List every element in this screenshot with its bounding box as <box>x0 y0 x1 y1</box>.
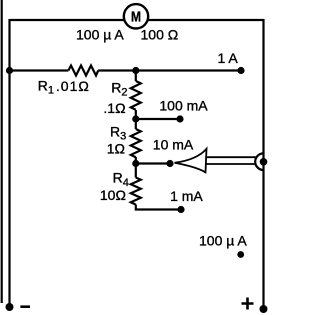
svg-text:1 mA: 1 mA <box>170 188 203 204</box>
resistor R3 <box>131 129 141 157</box>
wire: R1 to node B and on to 1 A contact <box>98 69 241 71</box>
svg-text:10 mA: 10 mA <box>153 137 194 153</box>
meter M <box>124 4 148 28</box>
svg-text:100 mA: 100 mA <box>159 98 208 114</box>
wire: top bus (meter branch) <box>10 19 264 21</box>
switch pivot dot <box>260 158 268 166</box>
switch pivot arc on right bus <box>255 153 263 170</box>
contact: 1 mA range <box>177 206 184 213</box>
wire: node D tap to 10 mA contact <box>136 162 170 164</box>
resistor R4 <box>131 178 141 205</box>
junction: left bus / shunt branch <box>6 67 13 74</box>
wire: left bus to R1 <box>10 69 69 71</box>
svg-text:M: M <box>131 9 141 26</box>
svg-text:.1Ω: .1Ω <box>103 100 125 116</box>
contact: 100 µA range (no shunt) <box>237 251 244 258</box>
svg-text:1 A: 1 A <box>218 50 239 66</box>
wire: node C tap to 100 mA contact <box>136 118 180 120</box>
contact: 10 mA range <box>166 160 173 167</box>
junction: node C (R2/R3 tap) <box>132 115 139 122</box>
svg-text:.01Ω: .01Ω <box>56 78 90 94</box>
label: plus sign <box>242 298 254 310</box>
resistor R1 <box>68 66 98 76</box>
junction: node D (R3/R4 tap) <box>132 160 139 167</box>
terminal: positive <box>260 305 268 313</box>
resistor R2 <box>131 81 141 110</box>
wire: R3 to node D <box>135 157 137 178</box>
junction: node B (top of R2 chain) <box>132 67 139 74</box>
svg-text:100 µ A: 100 µ A <box>199 233 247 249</box>
contact: 100 mA range <box>176 115 183 122</box>
svg-text:100 Ω: 100 Ω <box>141 27 179 43</box>
wire: node B to R2 <box>135 71 137 82</box>
terminal: negative <box>6 303 14 311</box>
wire: right bus (positive side) <box>262 19 264 309</box>
svg-text:1Ω: 1Ω <box>107 141 125 157</box>
label: minus sign <box>20 305 30 308</box>
svg-text:100 µ A: 100 µ A <box>76 27 124 43</box>
contact: 1 A range <box>237 67 244 74</box>
wire: left bus (negative side) <box>8 19 10 307</box>
svg-text:10Ω: 10Ω <box>100 187 126 203</box>
wire: R4 bottom to 1 mA contact <box>136 205 181 210</box>
figure edge line (left) <box>1 0 3 303</box>
switch wiper arrow (range selector) <box>175 149 256 173</box>
wire: R2 to node C <box>135 110 137 129</box>
